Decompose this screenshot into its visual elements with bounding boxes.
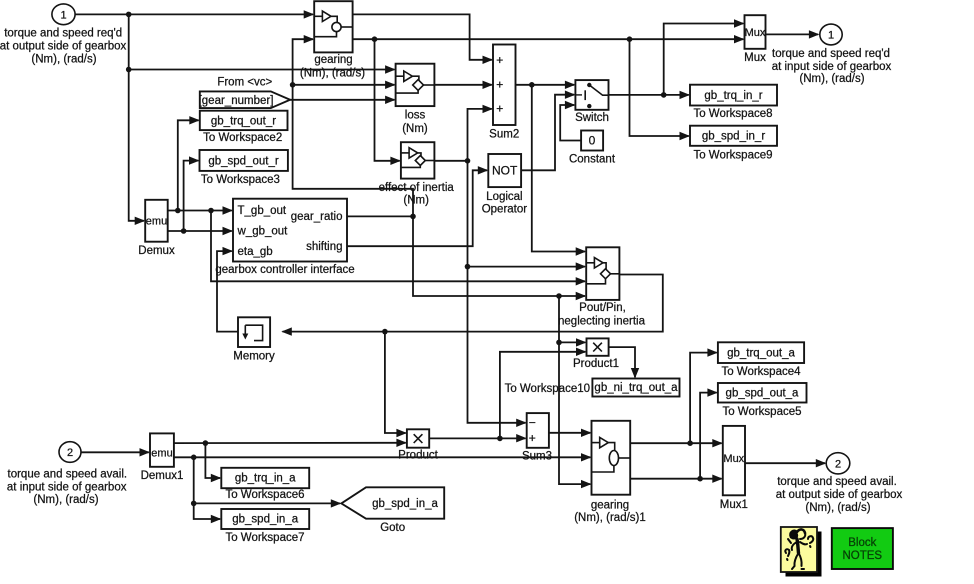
svg-text:To Workspace7: To Workspace7 bbox=[225, 532, 304, 544]
svg-text:Demux1: Demux1 bbox=[141, 470, 184, 482]
svg-text:To Workspace10: To Workspace10 bbox=[505, 383, 590, 395]
svg-text:(Nm), (rad/s): (Nm), (rad/s) bbox=[31, 53, 96, 65]
svg-text:1: 1 bbox=[60, 9, 66, 21]
svg-text:gb_spd_in_a: gb_spd_in_a bbox=[372, 498, 438, 510]
svg-text:To Workspace2: To Workspace2 bbox=[203, 132, 282, 144]
svg-text:Mux: Mux bbox=[744, 52, 766, 64]
svg-text:Goto: Goto bbox=[380, 522, 405, 534]
svg-text:gb_spd_in_r: gb_spd_in_r bbox=[702, 131, 765, 143]
svg-text:neglecting inertia: neglecting inertia bbox=[558, 315, 646, 327]
svg-text:To Workspace8: To Workspace8 bbox=[693, 108, 772, 120]
svg-text:at input side of gearbox: at input side of gearbox bbox=[7, 481, 127, 493]
svg-text:To Workspace5: To Workspace5 bbox=[722, 406, 801, 418]
svg-text:gb_trq_out_a: gb_trq_out_a bbox=[727, 347, 795, 359]
svg-text:Sum3: Sum3 bbox=[522, 450, 552, 462]
svg-text:NOTES: NOTES bbox=[842, 550, 882, 562]
svg-text:To Workspace9: To Workspace9 bbox=[693, 150, 772, 162]
svg-text:torque and speed req'd: torque and speed req'd bbox=[4, 28, 122, 40]
svg-text:gb_spd_out_r: gb_spd_out_r bbox=[208, 155, 279, 167]
svg-text:Memory: Memory bbox=[233, 351, 275, 363]
svg-text:Switch: Switch bbox=[575, 112, 609, 124]
svg-text:0: 0 bbox=[589, 134, 596, 148]
svg-text:gearbox controller interface: gearbox controller interface bbox=[215, 264, 354, 276]
svg-text:2: 2 bbox=[67, 447, 73, 459]
svg-text:emu: emu bbox=[146, 216, 167, 228]
svg-text:NOT: NOT bbox=[492, 164, 518, 178]
svg-text:(Nm), (rad/s): (Nm), (rad/s) bbox=[300, 67, 365, 79]
svg-text:Constant: Constant bbox=[569, 153, 616, 165]
svg-text:Mux1: Mux1 bbox=[720, 499, 748, 511]
svg-text:emu: emu bbox=[151, 447, 172, 459]
svg-text:torque and speed avail.: torque and speed avail. bbox=[777, 476, 897, 488]
svg-text:loss: loss bbox=[405, 110, 426, 122]
svg-text:gb_spd_in_a: gb_spd_in_a bbox=[232, 514, 298, 526]
svg-text:w_gb_out: w_gb_out bbox=[237, 226, 289, 238]
svg-text:eta_gb: eta_gb bbox=[238, 246, 273, 258]
svg-text:(Nm): (Nm) bbox=[403, 194, 429, 206]
svg-text:Demux: Demux bbox=[138, 245, 175, 257]
svg-text:+: + bbox=[529, 431, 536, 445]
svg-text:2: 2 bbox=[835, 458, 841, 470]
svg-text:Pout/Pin,: Pout/Pin, bbox=[579, 302, 626, 314]
svg-text:Mux: Mux bbox=[745, 27, 766, 39]
svg-text:torque and speed req'd: torque and speed req'd bbox=[772, 48, 890, 60]
svg-text:gb_trq_in_a: gb_trq_in_a bbox=[235, 473, 296, 485]
svg-text:(Nm), (rad/s): (Nm), (rad/s) bbox=[805, 502, 870, 514]
svg-text:(Nm): (Nm) bbox=[402, 123, 428, 135]
svg-text:effect of inertia: effect of inertia bbox=[379, 182, 455, 194]
svg-text:gearing: gearing bbox=[314, 54, 352, 66]
svg-text:Operator: Operator bbox=[482, 203, 528, 215]
svg-text:(Nm), (rad/s): (Nm), (rad/s) bbox=[33, 494, 98, 506]
svg-text:Product: Product bbox=[398, 450, 438, 462]
svg-text:Mux: Mux bbox=[723, 453, 744, 465]
svg-text:Logical: Logical bbox=[486, 191, 522, 203]
svg-text:gear_ratio: gear_ratio bbox=[291, 211, 343, 223]
svg-text:gb_trq_in_r: gb_trq_in_r bbox=[704, 90, 762, 102]
svg-text:1: 1 bbox=[828, 30, 834, 42]
svg-text:torque and speed avail.: torque and speed avail. bbox=[8, 469, 128, 481]
svg-text:at output side of gearbox: at output side of gearbox bbox=[0, 41, 127, 53]
svg-text:+: + bbox=[496, 53, 503, 67]
svg-text:To Workspace6: To Workspace6 bbox=[225, 489, 304, 501]
svg-text:(Nm), (rad/s)1: (Nm), (rad/s)1 bbox=[574, 512, 646, 524]
svg-text:at output side of gearbox: at output side of gearbox bbox=[776, 489, 903, 501]
svg-text:(Nm), (rad/s): (Nm), (rad/s) bbox=[799, 73, 864, 85]
svg-text:shifting: shifting bbox=[306, 241, 342, 253]
svg-text:To Workspace3: To Workspace3 bbox=[201, 174, 280, 186]
svg-text:[gear_number]: [gear_number] bbox=[199, 95, 274, 107]
svg-text:gb_ni_trq_out_a: gb_ni_trq_out_a bbox=[594, 382, 678, 394]
svg-text:−: − bbox=[529, 416, 536, 430]
svg-text:Product1: Product1 bbox=[573, 358, 619, 370]
svg-text:T_gb_out: T_gb_out bbox=[238, 205, 287, 217]
svg-text:gb_trq_out_r: gb_trq_out_r bbox=[211, 115, 276, 127]
svg-text:gearing: gearing bbox=[591, 500, 629, 512]
svg-text:gb_spd_out_a: gb_spd_out_a bbox=[726, 387, 800, 399]
svg-text:To Workspace4: To Workspace4 bbox=[721, 366, 801, 378]
svg-text:+: + bbox=[496, 78, 503, 92]
svg-text:Block: Block bbox=[848, 537, 876, 549]
svg-text:From <vc>: From <vc> bbox=[217, 77, 272, 89]
svg-text:+: + bbox=[496, 102, 503, 116]
svg-text:Sum2: Sum2 bbox=[489, 129, 519, 141]
svg-text:at input side of gearbox: at input side of gearbox bbox=[772, 61, 892, 73]
